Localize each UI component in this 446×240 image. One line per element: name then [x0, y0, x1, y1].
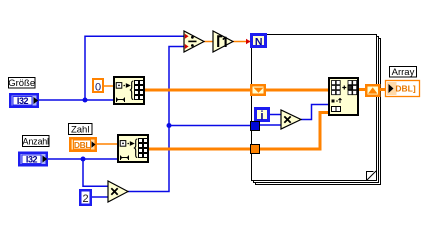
svg-text:i: i [260, 110, 263, 122]
wire init-array2 array output to orange tunnel [149, 148, 252, 151]
svg-text:DBL]: DBL] [395, 84, 415, 94]
blue tunnel [251, 122, 260, 131]
wire init-array1 array output to left shift register [145, 89, 252, 92]
wire Anzahl to init-array2 dim input [47, 158, 117, 160]
node junction on Anzahl wire [81, 157, 86, 162]
wire replace-array-subset output to right shift register and Array indicator [359, 88, 385, 91]
constant 2 (I32) [80, 190, 91, 205]
round toward +infinity function [213, 31, 233, 52]
indicator Array DBL array terminal [386, 81, 420, 97]
coercion dot bottom input [185, 44, 189, 49]
svg-text:Zahl: Zahl [71, 124, 89, 135]
svg-text:Array: Array [392, 67, 415, 78]
red arrow into N terminal [246, 39, 251, 44]
function init-array1 Initialize Array [114, 77, 144, 104]
function replace array subset [329, 78, 358, 115]
N loop count terminal [252, 35, 266, 49]
for-loop frame stack (back) [256, 39, 381, 185]
multiply function (2 x Anzahl) [108, 181, 128, 202]
wire branch up to divide top input [85, 36, 184, 100]
label Anzahl [23, 136, 50, 147]
wire branch down to multiply top input [83, 159, 108, 186]
left shift register [251, 85, 265, 95]
coercion dot top input [185, 34, 189, 39]
wire multiply output up to divide bottom input [128, 47, 184, 192]
i iteration terminal [256, 109, 269, 123]
svg-text:N: N [255, 36, 263, 48]
wire Zahl to init-array2 element input [97, 143, 117, 145]
svg-text:DBL: DBL [74, 140, 90, 150]
wire round-up output to N terminal [233, 41, 250, 43]
wire blue tunnel to loop multiply bottom input [260, 124, 281, 126]
svg-text:0: 0 [95, 82, 101, 94]
control Zahl DBL terminal [70, 138, 96, 151]
control Groesse I32 terminal [10, 94, 38, 107]
function init-array2 Initialize Array [118, 135, 148, 162]
right shift register [366, 85, 379, 96]
wire loop multiply output to replace-array-subset index input [301, 105, 328, 120]
node junction on Groesse wire [83, 98, 88, 103]
constant 0 (DBL) [93, 79, 103, 94]
orange tunnel [251, 145, 260, 154]
control Anzahl I32 terminal [19, 153, 47, 166]
wire branch to blue loop tunnel [169, 125, 250, 127]
for-loop U1 main frame [252, 35, 377, 181]
label Zahl [69, 124, 93, 136]
label Array [390, 67, 417, 79]
divide function [184, 31, 204, 52]
svg-text:Größe: Größe [8, 78, 35, 89]
wire constant 0 to init-array1 element input [104, 85, 113, 87]
node junction on vertical wire [167, 123, 172, 128]
svg-text:Anzahl: Anzahl [23, 136, 50, 146]
wire constant 2 to multiply bottom input [92, 196, 108, 198]
label Groesse [8, 78, 35, 90]
for-loop frame stack (middle) [254, 37, 379, 183]
wire divide output to round-up input [204, 41, 213, 43]
wire Groesse to init-array1 dim input [39, 99, 113, 101]
svg-text:2: 2 [82, 193, 88, 205]
wire left shift register to replace-array-subset array input [264, 89, 328, 92]
wire i terminal to loop multiply top input [270, 114, 281, 116]
for-loop dog-ear fold [367, 172, 374, 181]
multiply function inside loop (i x step) [281, 110, 301, 129]
wire orange tunnel to replace-array-subset subarray input [258, 113, 328, 150]
